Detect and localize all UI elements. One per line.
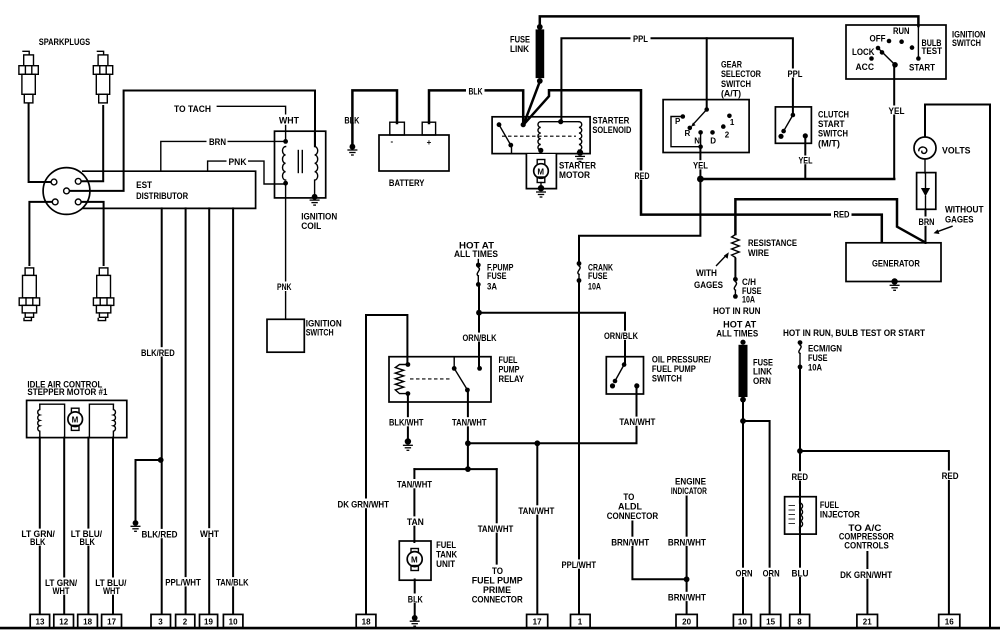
svg-text:SPARKPLUGS: SPARKPLUGS xyxy=(39,37,90,47)
svg-text:INJECTOR: INJECTOR xyxy=(820,510,860,520)
ignition coil box xyxy=(275,131,326,198)
svg-text:PUMP: PUMP xyxy=(499,364,520,374)
svg-text:ENGINE: ENGINE xyxy=(675,476,706,486)
svg-text:RUN: RUN xyxy=(893,26,910,36)
svg-text:15: 15 xyxy=(766,618,776,627)
svg-text:BLK: BLK xyxy=(408,594,423,604)
svg-text:HOT IN RUN, BULB TEST OR START: HOT IN RUN, BULB TEST OR START xyxy=(783,328,925,338)
connector 16 xyxy=(939,614,960,627)
svg-text:SWITCH: SWITCH xyxy=(818,129,848,139)
wire TAN/WHT lower bus right xyxy=(468,468,497,470)
wire EST BLK/RED to connector 3 xyxy=(161,208,163,615)
svg-text:FUSE: FUSE xyxy=(588,271,608,281)
EST distributor box xyxy=(82,171,256,208)
svg-text:BRN: BRN xyxy=(209,137,226,147)
label PNK lower xyxy=(275,282,293,293)
svg-text:17: 17 xyxy=(107,618,117,627)
svg-text:SELECTOR: SELECTOR xyxy=(721,69,761,79)
wire fuse link to ignition switch START xyxy=(540,16,919,26)
label PPL clutch xyxy=(786,69,805,79)
wire fuse link ORN to connector 10 xyxy=(742,401,744,616)
label LT BLU/WHT xyxy=(93,578,128,597)
svg-text:3A: 3A xyxy=(487,282,497,292)
clutch start switch arm xyxy=(784,115,793,131)
label RED injector xyxy=(790,471,811,482)
svg-text:BLK/RED: BLK/RED xyxy=(142,530,178,540)
wire volts to diode xyxy=(924,159,926,174)
distributor cap terminals xyxy=(51,178,81,204)
svg-text:FUEL PUMP: FUEL PUMP xyxy=(472,575,523,585)
relay BLK/WHT ground xyxy=(403,438,413,450)
svg-text:CONNECTOR: CONNECTOR xyxy=(472,595,523,605)
svg-text:VOLTS: VOLTS xyxy=(942,146,971,156)
wire ignition switch START feed (inside box) xyxy=(917,26,919,57)
label PPL xyxy=(631,34,651,44)
label TAN/WHT connector 17 xyxy=(516,505,556,516)
EST distributor cap circle xyxy=(43,168,90,215)
svg-text:ALL TIMES: ALL TIMES xyxy=(454,249,498,259)
label PPL/WHT connector 2 xyxy=(163,577,203,588)
svg-text:12: 12 xyxy=(59,618,69,627)
wire stepper motor to connector 12 xyxy=(63,438,65,615)
svg-text:WIRE: WIRE xyxy=(748,248,769,258)
idle air control stepper motor box xyxy=(27,400,127,437)
label ORN/BLK left xyxy=(461,333,498,343)
ignition switch arm xyxy=(879,49,896,65)
svg-text:TAN/WHT: TAN/WHT xyxy=(397,480,432,490)
wire stepper motor to connector 13 xyxy=(39,438,41,615)
svg-text:BRN/WHT: BRN/WHT xyxy=(668,537,706,547)
clutch start switch box xyxy=(775,107,811,143)
connector 10 xyxy=(223,614,243,627)
svg-text:10A: 10A xyxy=(808,363,822,373)
label TAN/BLK connector 10 xyxy=(214,577,250,588)
svg-text:YEL: YEL xyxy=(889,106,905,116)
label BRN/WHT indicator xyxy=(666,537,708,548)
svg-text:R: R xyxy=(685,129,691,138)
svg-text:(A/T): (A/T) xyxy=(721,89,741,99)
sparkplug 1 xyxy=(19,51,38,103)
svg-text:10A: 10A xyxy=(742,295,755,305)
fuel pump relay switch xyxy=(453,358,455,369)
wire DK GRN/WHT A/C compressor stub to connector 21 xyxy=(866,552,868,615)
wire PPL solenoid to clutch switch xyxy=(561,38,793,119)
svg-text:BLK/RED: BLK/RED xyxy=(141,348,175,358)
label BLK solenoid xyxy=(466,86,485,97)
label RED connector 16 xyxy=(940,471,961,482)
svg-text:BATTERY: BATTERY xyxy=(389,178,425,188)
svg-text:START: START xyxy=(909,63,935,73)
starter solenoid PPL terminal dot xyxy=(558,119,563,124)
starter solenoid dashed link xyxy=(502,135,576,137)
clutch start switch contacts xyxy=(791,113,796,118)
starter solenoid terminal dot xyxy=(521,122,526,127)
svg-text:BLK: BLK xyxy=(469,86,483,96)
connector 19 xyxy=(200,614,218,627)
svg-text:SOLENOID: SOLENOID xyxy=(592,125,631,135)
wire sparkplug 1 to distributor xyxy=(29,104,52,183)
fuel pump relay box xyxy=(389,357,491,402)
svg-text:CONTROLS: CONTROLS xyxy=(844,540,889,550)
wire EST WHT to connector 19 xyxy=(208,208,210,615)
wire YEL ignition switch down xyxy=(893,66,895,179)
fuel tank unit box xyxy=(399,541,431,580)
stepper motor M xyxy=(71,408,79,413)
wire TAN/WHT lower bus xyxy=(414,443,468,469)
svg-text:2: 2 xyxy=(183,618,188,627)
starter motor ground xyxy=(536,185,546,197)
starter solenoid hold winding xyxy=(579,122,582,152)
label YEL clutch xyxy=(797,156,815,166)
svg-text:PNK: PNK xyxy=(277,282,292,292)
wire relay BLK/WHT to ground xyxy=(407,395,409,440)
starter solenoid box xyxy=(492,117,590,154)
label LT GRN/WHT xyxy=(43,578,79,597)
connector 3 xyxy=(151,614,171,627)
label DK GRN/WHT ac xyxy=(838,569,894,580)
starter solenoid top rail xyxy=(541,121,579,123)
volts gauge xyxy=(914,137,936,159)
svg-text:DK GRN/WHT: DK GRN/WHT xyxy=(840,570,892,580)
wire BRN/WHT from ALDL connector xyxy=(632,522,686,580)
svg-text:OIL PRESSURE/: OIL PRESSURE/ xyxy=(652,354,711,364)
svg-text:2: 2 xyxy=(725,130,730,139)
oil pressure switch contacts xyxy=(622,362,627,367)
wire YEL gear selector down and to crank fuse xyxy=(579,148,700,262)
svg-text:BRN/WHT: BRN/WHT xyxy=(611,537,649,547)
svg-text:1: 1 xyxy=(730,118,735,127)
wire RED branch to connector 16 xyxy=(800,451,949,615)
svg-text:TEST: TEST xyxy=(922,46,943,56)
ECM bottom rail xyxy=(0,627,1000,630)
label TAN/WHT oil switch xyxy=(617,417,657,427)
starter solenoid coil output dot xyxy=(538,148,543,153)
battery box xyxy=(379,135,449,171)
label LT BLU/BLK xyxy=(69,529,104,547)
svg-text:N: N xyxy=(694,137,700,146)
generator box xyxy=(846,243,941,282)
svg-text:10: 10 xyxy=(229,618,239,627)
connector 17 xyxy=(102,614,122,627)
label BLK/RED lower xyxy=(140,529,180,540)
generator ground xyxy=(890,278,900,290)
svg-text:M: M xyxy=(537,168,544,177)
svg-text:PPL: PPL xyxy=(633,34,648,44)
label BRN xyxy=(207,137,228,148)
wire PPL branch to gear selector xyxy=(706,38,708,108)
svg-text:RED: RED xyxy=(792,472,809,482)
label BLK/RED upper xyxy=(139,347,177,358)
label WHT coil xyxy=(278,115,300,126)
svg-text:HOT IN RUN: HOT IN RUN xyxy=(713,306,761,316)
svg-text:ORN: ORN xyxy=(763,568,780,578)
gear selector switch box xyxy=(663,100,749,153)
starter motor xyxy=(537,160,545,166)
svg-text:ALL TIMES: ALL TIMES xyxy=(716,328,758,338)
svg-text:+: + xyxy=(427,138,432,147)
wire RED from solenoid terminal to generator xyxy=(524,90,882,242)
connector 1 xyxy=(571,614,591,627)
connector 13 xyxy=(30,614,49,627)
svg-text:SWITCH: SWITCH xyxy=(952,38,981,48)
sparkplug 2 xyxy=(93,51,112,103)
label RED solenoid xyxy=(632,171,652,181)
ignition coil terminal dots xyxy=(283,139,288,144)
wire stepper motor to connector 18 xyxy=(87,438,89,615)
svg-text:TO: TO xyxy=(623,492,634,502)
svg-text:TANK: TANK xyxy=(436,549,457,559)
svg-text:ORN: ORN xyxy=(753,376,771,386)
fuel tank unit motor xyxy=(411,549,418,554)
sparkplug 4 xyxy=(93,268,113,321)
svg-text:LINK: LINK xyxy=(510,44,529,54)
wire sparkplug 3 to distributor xyxy=(29,202,52,265)
svg-text:10A: 10A xyxy=(588,282,601,292)
oil pressure / fuel pump switch box xyxy=(606,357,643,394)
label BRN/WHT connector 20 xyxy=(666,592,708,603)
svg-text:FUEL: FUEL xyxy=(436,540,456,550)
ignition coil secondary winding xyxy=(315,132,318,196)
svg-text:8: 8 xyxy=(797,618,802,627)
svg-text:BLU: BLU xyxy=(792,568,809,578)
oil pressure switch arm xyxy=(615,365,624,381)
svg-text:GENERATOR: GENERATOR xyxy=(872,258,920,268)
svg-text:WITHOUT: WITHOUT xyxy=(945,205,984,215)
connector 2 xyxy=(176,614,195,627)
svg-text:COIL: COIL xyxy=(301,221,321,231)
wire sparkplug 4 to distributor xyxy=(81,202,103,265)
BLK/RED tap junction xyxy=(158,457,164,463)
svg-text:PPL/WHT: PPL/WHT xyxy=(562,560,597,570)
gear selector arm with arrowhead xyxy=(694,110,707,124)
starter solenoid switch xyxy=(497,122,502,127)
fuel tank BLK ground xyxy=(410,615,420,626)
wire BLK fuel tank unit to ground xyxy=(414,580,416,616)
svg-text:LOCK: LOCK xyxy=(852,47,875,57)
fuse link xyxy=(536,29,545,78)
label TAN/WHT relay xyxy=(450,417,489,427)
svg-text:STARTER: STARTER xyxy=(559,160,596,170)
svg-text:START: START xyxy=(818,119,845,129)
svg-text:BLK: BLK xyxy=(344,116,359,126)
ignition coil primary winding xyxy=(283,147,286,181)
svg-text:OFF: OFF xyxy=(870,34,886,44)
label ORN/BLK right xyxy=(602,331,639,341)
wire TAN to fuel tank unit xyxy=(413,469,415,542)
wire ORN/BLK to oil pressure switch xyxy=(479,313,625,363)
svg-text:BLK: BLK xyxy=(80,537,96,547)
svg-text:CLUTCH: CLUTCH xyxy=(818,109,849,119)
svg-text:TAN/BLK: TAN/BLK xyxy=(216,578,249,588)
wire PNK coil to ignition switch xyxy=(285,184,287,319)
svg-text:(M/T): (M/T) xyxy=(818,138,840,148)
gear selector switch contacts xyxy=(681,107,732,149)
battery terminal posts xyxy=(390,122,405,135)
svg-text:TAN: TAN xyxy=(407,517,424,527)
svg-text:TAN/WHT: TAN/WHT xyxy=(452,418,487,428)
svg-text:21: 21 xyxy=(863,618,873,627)
svg-text:ALDL: ALDL xyxy=(618,502,642,512)
label TAN/WHT fuel tank xyxy=(395,479,434,490)
wire volts gauge loop to ECM xyxy=(925,105,990,628)
wire EST PPL/WHT to connector 2 xyxy=(185,208,187,615)
label PNK xyxy=(227,156,249,167)
ignition coil core xyxy=(297,151,299,173)
C/H fuse xyxy=(733,277,738,282)
svg-text:18: 18 xyxy=(362,618,372,627)
wire YEL bus xyxy=(700,178,894,181)
label PPL/WHT connector 1 xyxy=(560,559,599,570)
svg-text:TAN/WHT: TAN/WHT xyxy=(478,524,514,534)
svg-text:TAN/WHT: TAN/WHT xyxy=(518,506,554,516)
connector 21 xyxy=(857,614,878,627)
starter motor enclosure xyxy=(526,154,556,189)
wire relay feed from connector 18 DK GRN/WHT xyxy=(366,315,407,615)
svg-text:EST: EST xyxy=(136,180,152,190)
connector 8 xyxy=(790,614,810,627)
wire BRN diode to generator xyxy=(925,209,927,243)
svg-text:PNK: PNK xyxy=(229,157,247,167)
svg-text:RED: RED xyxy=(834,209,850,219)
diode symbol xyxy=(925,174,927,188)
svg-text:RED: RED xyxy=(635,171,650,181)
svg-text:P: P xyxy=(675,117,681,126)
F.PUMP fuse xyxy=(477,260,479,264)
svg-text:FUEL: FUEL xyxy=(820,500,839,510)
label BLK/WHT xyxy=(387,417,426,427)
svg-text:BRN/WHT: BRN/WHT xyxy=(668,592,706,602)
ECM/IGN fuse xyxy=(798,340,803,345)
svg-text:ORN/BLK: ORN/BLK xyxy=(463,333,497,343)
wire crank fuse to connector 1 PPL/WHT xyxy=(578,283,580,616)
svg-text:FUSE: FUSE xyxy=(487,271,507,281)
svg-text:GAGES: GAGES xyxy=(945,215,974,225)
svg-text:BLK: BLK xyxy=(30,537,46,547)
svg-text:TO TACH: TO TACH xyxy=(174,104,211,114)
svg-text:ECM/IGN: ECM/IGN xyxy=(808,343,842,353)
svg-text:10: 10 xyxy=(738,618,748,627)
svg-text:WHT: WHT xyxy=(279,116,299,126)
svg-text:16: 16 xyxy=(945,618,955,627)
svg-text:13: 13 xyxy=(36,618,46,627)
wire PNK distributor to coil xyxy=(208,161,285,184)
wire TAN/WHT relay to oil pressure switch bus xyxy=(468,387,637,443)
resistance wire zigzag xyxy=(732,235,740,259)
label BLU xyxy=(790,568,811,579)
wire YEL clutch switch down xyxy=(804,137,806,180)
wire TAN/WHT to connector 17 xyxy=(536,443,538,615)
svg-text:BRN: BRN xyxy=(919,217,935,227)
svg-text:GEAR: GEAR xyxy=(721,60,742,70)
label BLK fuel tank xyxy=(406,594,425,605)
svg-text:UNIT: UNIT xyxy=(436,559,455,569)
svg-text:FUEL: FUEL xyxy=(499,355,518,365)
junction dots xyxy=(476,310,482,316)
label DK GRN/WHT relay feed xyxy=(336,499,392,510)
wire stepper motor to connector 17 xyxy=(112,438,114,615)
svg-text:PPL: PPL xyxy=(788,69,803,79)
ignition coil ground xyxy=(310,194,320,205)
svg-text:M: M xyxy=(72,416,79,425)
svg-text:M: M xyxy=(411,556,418,565)
wire battery negative BLK to ground xyxy=(352,90,397,144)
wire RED ECM/IGN fuse to fuel injector and connector 8 xyxy=(799,369,801,616)
svg-text:MOTOR: MOTOR xyxy=(559,170,590,180)
wire resistance wire to C/H fuse xyxy=(734,259,736,277)
svg-text:D: D xyxy=(710,137,716,146)
stepper motor right coil xyxy=(89,404,113,437)
BLK/RED tap ground xyxy=(131,520,141,531)
svg-text:INDICATOR: INDICATOR xyxy=(671,486,707,496)
starter solenoid pull-in winding xyxy=(538,122,541,150)
svg-text:CONNECTOR: CONNECTOR xyxy=(607,511,659,521)
label RED generator xyxy=(831,209,852,220)
ignition switch (column) box xyxy=(267,319,304,352)
label ORN connector 15 xyxy=(761,568,782,579)
svg-text:WITH: WITH xyxy=(696,268,717,278)
svg-text:TO: TO xyxy=(492,566,503,576)
svg-text:RESISTANCE: RESISTANCE xyxy=(748,238,797,248)
svg-text:DK GRN/WHT: DK GRN/WHT xyxy=(338,500,390,510)
wire BLK/RED ground tap xyxy=(136,460,161,521)
label ORN connector 10 xyxy=(734,568,755,579)
svg-text:RED: RED xyxy=(942,471,959,481)
label TAN xyxy=(405,516,426,527)
fuel pump relay dashed link xyxy=(410,378,452,380)
connector 17b xyxy=(527,614,548,627)
wire BRN distributor to coil xyxy=(161,141,285,170)
svg-text:YEL: YEL xyxy=(693,161,708,171)
svg-text:PPL/WHT: PPL/WHT xyxy=(165,578,201,588)
fuel pump relay coil xyxy=(406,362,411,367)
connector 18 xyxy=(78,614,98,627)
connector 12 xyxy=(54,614,74,627)
connector 15 xyxy=(761,614,781,627)
wire F.PUMP fuse ORN/BLK to relay xyxy=(478,286,480,367)
wire fuse link to solenoid diagonal xyxy=(524,82,540,125)
wire distributor center to ignition coil secondary xyxy=(70,91,315,191)
starter solenoid ground xyxy=(575,149,585,161)
svg-text:IGNITION: IGNITION xyxy=(301,212,337,222)
sparkplug 3 xyxy=(19,268,39,321)
svg-text:DISTRIBUTOR: DISTRIBUTOR xyxy=(136,191,188,201)
label YEL ignition xyxy=(887,106,907,116)
wire sparkplug 2 to distributor xyxy=(81,106,103,181)
svg-text:-: - xyxy=(391,137,394,146)
svg-text:17: 17 xyxy=(533,618,543,627)
wire battery positive BLK to starter solenoid xyxy=(429,90,523,124)
svg-text:18: 18 xyxy=(83,618,93,627)
svg-text:SWITCH: SWITCH xyxy=(306,327,334,337)
gear selector P-N bracket xyxy=(671,117,698,147)
wire ORN branch to connector 15 xyxy=(743,421,770,615)
svg-text:FUSE: FUSE xyxy=(510,35,530,45)
connector 20 xyxy=(676,614,697,627)
ignition switch box xyxy=(846,25,946,79)
svg-text:RELAY: RELAY xyxy=(499,374,525,384)
wire solenoid coil to starter motor xyxy=(540,151,542,164)
svg-text:STARTER: STARTER xyxy=(592,115,629,125)
svg-text:FUSE: FUSE xyxy=(808,353,828,363)
wire EST TAN/BLK to connector 10 xyxy=(232,208,234,615)
svg-text:WHT: WHT xyxy=(53,586,70,596)
wire gages feed resistance wire to generator xyxy=(735,199,924,242)
svg-text:3: 3 xyxy=(158,618,163,627)
label BRN/WHT aldl xyxy=(609,537,651,548)
svg-text:FUEL PUMP: FUEL PUMP xyxy=(652,364,696,374)
svg-text:ORN: ORN xyxy=(736,568,753,578)
fuel injector coil xyxy=(800,500,803,531)
